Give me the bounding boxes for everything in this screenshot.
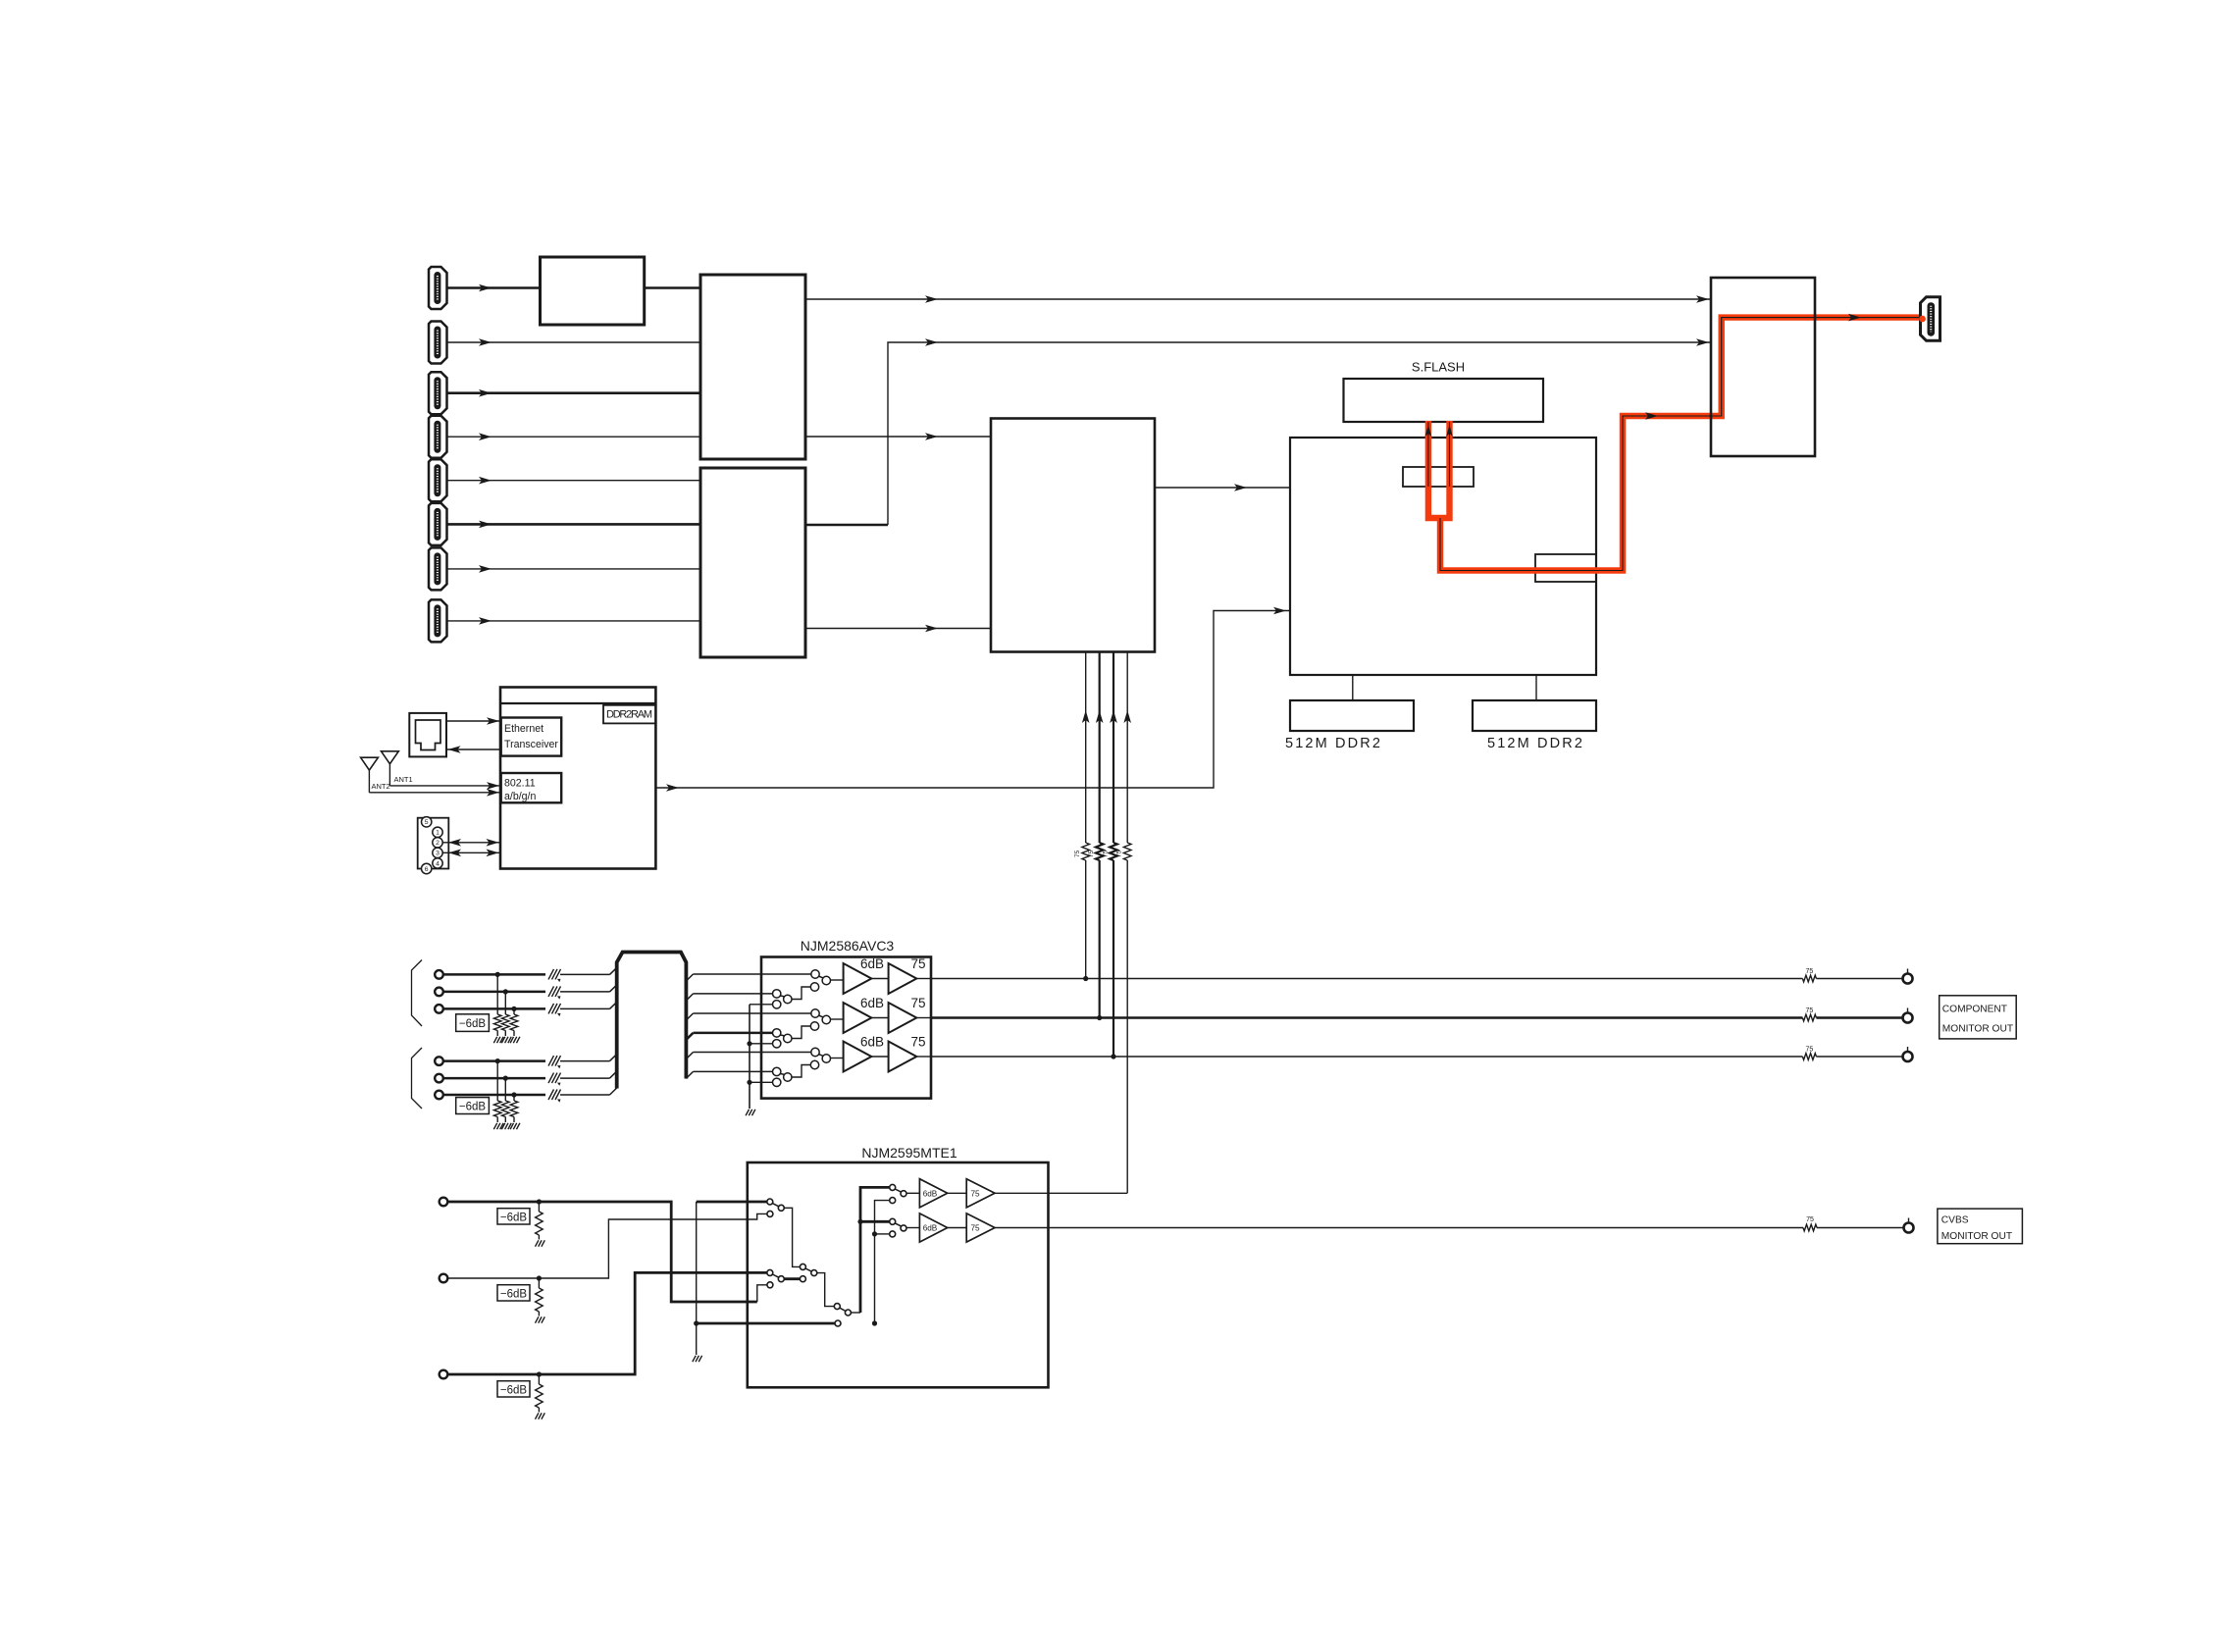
label -6dB cvbs 1	[497, 1209, 530, 1224]
wire video v2 with resistor 75	[1088, 652, 1103, 1018]
wire cvbs1 link	[948, 1192, 967, 1194]
switch row2 A	[810, 1009, 830, 1030]
wire video v3 with resistor 75	[1103, 652, 1117, 1058]
svg-text:5: 5	[425, 819, 429, 826]
wire row2 swB to swA	[792, 1026, 810, 1039]
switch S1	[767, 1199, 785, 1216]
wire RJ45 to ethernet	[446, 717, 501, 725]
wire riser to U-R	[888, 338, 1711, 525]
block DDR2 right	[1473, 700, 1596, 731]
connector J6 (HDMI input 6)	[429, 503, 447, 545]
block U-A (HDMI receiver A)	[700, 275, 805, 459]
wire TB to U-A	[645, 286, 700, 289]
ground group2 2	[501, 1123, 511, 1129]
svg-text:CVBS: CVBS	[1941, 1215, 1969, 1226]
connector J7 (HDMI input 7)	[429, 547, 447, 590]
op-amp row3 75	[889, 1042, 917, 1072]
wire ground bus E1	[747, 1005, 751, 1109]
ground group1 1	[493, 1037, 503, 1043]
switch row3 B	[773, 1067, 793, 1086]
terminal group2 Pr	[435, 1091, 443, 1100]
ground group2 1	[493, 1123, 503, 1129]
connector J8 (HDMI input 8)	[429, 599, 447, 642]
pin 6	[422, 863, 432, 873]
svg-text:75: 75	[1806, 968, 1814, 975]
svg-text:6dB: 6dB	[923, 1224, 938, 1233]
svg-text:NJM2595MTE1: NJM2595MTE1	[861, 1145, 957, 1161]
wire cvbs amp2 out	[995, 1227, 1049, 1229]
pin 2	[433, 838, 442, 848]
label cvbs1 75	[970, 1189, 980, 1198]
wire row1 amp to amp	[871, 978, 888, 980]
svg-text:75: 75	[910, 956, 925, 971]
svg-text:512M DDR2: 512M DDR2	[1285, 736, 1380, 751]
wire cvbs2 link	[948, 1227, 967, 1229]
wire cvbs in1 elbow to S2 lower	[757, 1285, 767, 1302]
block U-S (main SoC)	[1290, 438, 1596, 675]
ferrite bead group2 Y	[548, 1056, 561, 1068]
label ANT1	[394, 775, 413, 784]
terminal group2 Y	[435, 1057, 443, 1065]
label NJM2586AVC3	[801, 938, 895, 954]
ground group1 3	[510, 1037, 520, 1043]
wire row2 amp out	[916, 1017, 931, 1019]
terminal group2 Pb	[435, 1074, 443, 1083]
resistor -6dB cvbs 3	[536, 1374, 543, 1413]
node v3-Pr junction	[1111, 1054, 1115, 1058]
node cvbs in2 junction	[537, 1275, 542, 1280]
block P2 (output port)	[1535, 554, 1596, 582]
svg-text:4: 4	[436, 860, 440, 867]
svg-text:−6dB: −6dB	[459, 1102, 487, 1113]
wire cvbs in2	[447, 1213, 767, 1278]
label S.FLASH	[1412, 360, 1465, 375]
svg-text:COMPONENT: COMPONENT	[1942, 1005, 2007, 1015]
wire group2 Pr input	[443, 1088, 617, 1095]
svg-text:−6dB: −6dB	[459, 1018, 487, 1030]
svg-text:75: 75	[1103, 850, 1110, 857]
node v1-Y junction	[1083, 976, 1088, 981]
switch S3	[800, 1264, 816, 1281]
svg-text:75: 75	[1088, 850, 1095, 857]
connector J1 (HDMI input 1)	[429, 267, 447, 309]
label DDR2RAM box	[603, 705, 655, 724]
label cvbs2 75	[970, 1224, 980, 1233]
wire U-S to DDR2 right	[1535, 675, 1537, 700]
svg-text:6dB: 6dB	[860, 996, 884, 1010]
wire mute feed vertical	[697, 1202, 767, 1323]
label -6dB group1	[456, 1014, 490, 1032]
connector RJ45	[409, 713, 446, 757]
wire row1 swB to swA	[792, 987, 810, 1000]
connector phone jack	[418, 818, 449, 869]
wire black overlay route	[1440, 314, 1922, 571]
node cvbs in3 junction	[537, 1371, 542, 1376]
wire group1 Pr input	[443, 1002, 617, 1008]
block U-R (HDMI transmitter)	[1711, 278, 1815, 456]
svg-text:75: 75	[1806, 1007, 1814, 1014]
wire group1 Pb input	[443, 985, 617, 992]
connector HDMI OUT	[1919, 297, 1940, 341]
node v2-Pb junction	[1097, 1015, 1102, 1020]
wire row3 swB to swA	[792, 1065, 810, 1078]
wire cable to row1 A	[686, 974, 810, 981]
resistor -6dB group1 1	[493, 974, 501, 1036]
wire J5 to block	[447, 477, 700, 485]
wire U-A out2 to U-C	[805, 433, 991, 440]
svg-text:75: 75	[970, 1224, 980, 1233]
label cvbs1 6dB	[923, 1189, 938, 1198]
svg-text:75: 75	[1116, 850, 1123, 857]
wire component out Pb	[931, 1016, 1903, 1019]
connector J4 (HDMI input 4)	[429, 416, 447, 458]
wire red route to HDMI out (highlight)	[1440, 318, 1922, 571]
svg-text:75: 75	[1074, 850, 1081, 857]
wire cvbs amp1 out	[995, 1192, 1049, 1194]
wire pin2 to module	[443, 839, 501, 847]
wire S2 common to S3 lower (thick)	[784, 1277, 800, 1280]
terminal cvbs in1	[440, 1198, 448, 1207]
wire ANT1 to 802.11	[389, 782, 500, 790]
op-amp U2 NJM2586AVC3 block	[761, 957, 931, 1099]
block DDR2 left	[1290, 700, 1414, 731]
resistor -6dB cvbs 1	[536, 1202, 543, 1240]
svg-text:ANT1: ANT1	[394, 775, 413, 784]
svg-text:75: 75	[1806, 1047, 1814, 1054]
svg-text:−6dB: −6dB	[500, 1213, 528, 1224]
label row1 75	[910, 956, 925, 971]
pin 4	[433, 858, 442, 868]
ferrite bead group1 Y	[548, 969, 561, 982]
op-amp row2 75	[889, 1003, 917, 1033]
resistor -6dB group2 3	[510, 1095, 518, 1122]
label -6dB cvbs 2	[497, 1285, 530, 1301]
block Ethernet Transceiver	[501, 718, 562, 756]
terminal component out Y	[1903, 969, 1913, 984]
svg-text:a/b/g/n: a/b/g/n	[504, 791, 537, 802]
wire row2 swA to amp	[831, 1018, 844, 1020]
wire S3 common to S4 upper	[817, 1273, 834, 1307]
switch S2	[767, 1269, 785, 1287]
wire v4 to NJM2595	[1049, 1192, 1128, 1194]
switch row3 A	[810, 1048, 830, 1068]
label Ethernet Transceiver	[504, 723, 558, 750]
label NJM2595MTE1	[861, 1145, 957, 1161]
switch row1 B	[773, 990, 793, 1008]
label row2 6dB	[860, 996, 884, 1010]
wire module to U-S	[655, 607, 1290, 792]
ground cvbs 2	[536, 1316, 545, 1322]
wire row3 swA to amp	[831, 1058, 844, 1059]
node group2 Y junction	[495, 1058, 500, 1063]
wire row3 amp to amp	[871, 1056, 888, 1058]
ground group1 2	[501, 1037, 511, 1043]
bracket group1	[412, 960, 423, 1027]
op-amp cvbs1 6dB	[919, 1179, 947, 1208]
wire J8 to block	[447, 617, 700, 625]
terminal cvbs in3	[440, 1370, 448, 1379]
label 512M DDR2 left	[1285, 736, 1380, 751]
wire J2 to block	[447, 338, 700, 346]
svg-text:75: 75	[1806, 1216, 1814, 1223]
wire CVBS out	[1049, 1227, 1904, 1229]
wire thick riser to S5 S6	[857, 1187, 889, 1313]
wire group2 Pb input	[443, 1071, 617, 1078]
op-amp row2 6dB	[844, 1003, 872, 1033]
block TB (input buffer)	[541, 257, 645, 325]
terminal group1 Y	[435, 970, 443, 979]
block U-M (network module)	[500, 688, 655, 869]
svg-text:6dB: 6dB	[860, 956, 884, 971]
svg-text:6: 6	[425, 866, 429, 873]
label row2 75	[910, 996, 925, 1010]
wire U-A out1 to U-R	[805, 295, 1711, 303]
svg-text:Ethernet: Ethernet	[504, 723, 543, 735]
pin 3	[433, 848, 442, 857]
ferrite bead group1 Pb	[548, 986, 561, 999]
node group1 Pb junction	[503, 989, 508, 994]
svg-text:NJM2586AVC3: NJM2586AVC3	[801, 938, 895, 954]
wire S6 to amp	[906, 1227, 919, 1229]
block P1 (flash interface port)	[1403, 467, 1474, 487]
op-amp cvbs2 6dB	[919, 1213, 947, 1242]
svg-text:75: 75	[910, 996, 925, 1010]
label 512M DDR2 right	[1487, 736, 1582, 751]
label row3 75	[910, 1035, 925, 1050]
block U-B (HDMI receiver B)	[700, 468, 805, 657]
wire U-B out2 to U-C	[805, 625, 991, 633]
connector J3 (HDMI input 3)	[429, 372, 447, 414]
ground E1 bus	[746, 1110, 755, 1115]
node group1 Pr junction	[511, 1007, 516, 1011]
wire component out Pr	[931, 1056, 1903, 1058]
wire cable to row2 A	[686, 1013, 810, 1020]
terminal component out Pr	[1903, 1047, 1913, 1061]
svg-text:MONITOR OUT: MONITOR OUT	[1941, 1231, 2012, 1242]
wire S1 common to S3 upper	[784, 1208, 800, 1266]
label COMPONENT MONITOR OUT	[1940, 996, 2017, 1039]
wire J4 to block	[447, 433, 700, 440]
label 802.11 abgn	[504, 778, 537, 803]
wire ethernet to RJ45	[446, 746, 501, 753]
svg-text:6dB: 6dB	[860, 1035, 884, 1050]
wire cable to row2 B	[686, 1033, 772, 1040]
wire black overlay flash stub 2	[1446, 422, 1453, 487]
wire video v4 with resistor 75	[1116, 652, 1131, 1194]
wire black overlay flash stub 1	[1425, 422, 1432, 487]
terminal component out Pb	[1903, 1008, 1913, 1023]
ground group2 3	[510, 1123, 520, 1129]
svg-text:3: 3	[436, 851, 440, 857]
resistor -6dB group2 2	[502, 1078, 510, 1122]
wire row1 amp out	[916, 978, 931, 980]
wire row2 swB lower to bus	[750, 1043, 773, 1045]
pin 5	[422, 817, 432, 827]
svg-text:−6dB: −6dB	[500, 1385, 528, 1397]
svg-text:DDR2RAM: DDR2RAM	[606, 709, 652, 721]
block S.FLASH	[1344, 379, 1544, 422]
wire pin3 to module	[443, 850, 501, 857]
wire ground bus cvbs (thick)	[697, 1322, 835, 1325]
wire J6 to block	[447, 521, 700, 529]
wire row1 swB lower to bus	[750, 1004, 773, 1006]
switch S6	[890, 1218, 906, 1237]
connector J5 (HDMI input 5)	[429, 459, 447, 501]
svg-text:MONITOR OUT: MONITOR OUT	[1942, 1024, 2013, 1035]
wire cvbs in1 (thick)	[447, 1202, 757, 1302]
switch S4	[834, 1304, 851, 1326]
wire cvbs in3 (thick)	[447, 1272, 766, 1374]
node group2 Pr junction	[511, 1092, 516, 1097]
svg-text:2: 2	[436, 840, 440, 847]
bracket group2	[412, 1048, 423, 1109]
wire J7 to block	[447, 565, 700, 573]
svg-text:512M DDR2: 512M DDR2	[1487, 736, 1582, 751]
op-amp cvbs2 75	[966, 1213, 995, 1242]
op-amp cvbs1 75	[966, 1179, 995, 1208]
op-amp U3 NJM2595MTE1 block	[748, 1162, 1049, 1387]
resistor 75 out Y	[1802, 968, 1816, 982]
switch row1 A	[810, 970, 830, 991]
op-amp row1 75	[889, 963, 917, 994]
wire J1 to block	[447, 284, 541, 292]
svg-text:1: 1	[436, 830, 440, 837]
wire ground stub cvbs	[696, 1323, 698, 1355]
svg-text:802.11: 802.11	[504, 778, 536, 790]
node cvbs in1 junction	[537, 1199, 542, 1204]
resistor -6dB group1 3	[510, 1008, 518, 1036]
resistor 75 out Pr	[1802, 1047, 1816, 1060]
block U-C (video processor)	[991, 419, 1155, 652]
ground cvbs bus	[693, 1356, 702, 1362]
wire U-B out1 (thick) to riser	[805, 524, 888, 527]
label -6dB group2	[456, 1098, 490, 1114]
svg-text:−6dB: −6dB	[500, 1289, 528, 1301]
label ANT2	[372, 782, 390, 791]
resistor -6dB cvbs 2	[536, 1278, 543, 1316]
wire component out Y	[931, 978, 1903, 980]
switch row2 B	[773, 1029, 793, 1048]
ferrite bead group1 Pr	[548, 1004, 561, 1016]
pin 1	[433, 827, 442, 837]
wire row3 amp out	[916, 1056, 931, 1058]
ground cvbs 3	[536, 1413, 545, 1419]
ferrite bead group2 Pb	[548, 1073, 561, 1086]
wire U-C to U-S	[1155, 484, 1290, 491]
wire U-S to DDR2 left	[1352, 675, 1354, 700]
wire S5 to amp	[906, 1192, 919, 1194]
svg-text:6dB: 6dB	[923, 1189, 938, 1198]
wire red flash stubs (highlight)	[1428, 421, 1450, 518]
antenna ANT2	[361, 757, 379, 793]
op-amp row1 6dB	[844, 963, 872, 994]
svg-text:ANT2: ANT2	[372, 782, 390, 791]
label cvbs2 6dB	[923, 1224, 938, 1233]
ferrite bead group2 Pr	[548, 1090, 561, 1103]
terminal CVBS out	[1904, 1218, 1914, 1233]
svg-text:S.FLASH: S.FLASH	[1412, 360, 1465, 375]
label DDR2RAM	[606, 709, 652, 721]
resistor -6dB group1 2	[502, 992, 510, 1036]
node group2 Pb junction	[503, 1076, 508, 1081]
wire ANT2 to 802.11	[369, 789, 500, 797]
resistor -6dB group2 1	[493, 1061, 501, 1122]
antenna ANT1	[382, 751, 399, 786]
wire S5 S6 lower tie	[872, 1201, 890, 1326]
wire J3 to block	[447, 389, 700, 397]
block 802.11 abgn	[501, 773, 562, 802]
resistor 75 out Pb	[1802, 1007, 1816, 1021]
terminal cvbs in2	[440, 1274, 448, 1283]
label -6dB cvbs 3	[497, 1381, 530, 1397]
wire group1 Y input	[443, 967, 617, 974]
label row3 6dB	[860, 1035, 884, 1050]
wire row1 swA to amp	[831, 979, 844, 981]
wire cable to row3 B	[686, 1071, 772, 1078]
wire row3 swB lower to bus	[750, 1081, 773, 1083]
svg-text:Transceiver: Transceiver	[504, 739, 558, 750]
wire cable to row1 B	[686, 994, 772, 1001]
label CVBS MONITOR OUT	[1938, 1209, 2022, 1244]
node group1 Y junction	[495, 972, 500, 977]
svg-text:75: 75	[970, 1189, 980, 1198]
wire video v1 with resistor 75	[1074, 652, 1089, 979]
wire S4 common to riser	[852, 1312, 861, 1314]
wire group2 Y input	[443, 1055, 617, 1061]
switch S5	[890, 1184, 906, 1203]
terminal group1 Pr	[435, 1005, 443, 1013]
ground cvbs 1	[536, 1240, 545, 1246]
terminal group1 Pb	[435, 988, 443, 997]
resistor 75 CVBS	[1803, 1216, 1817, 1231]
wire cable to row3 A	[686, 1053, 810, 1059]
label row1 6dB	[860, 956, 884, 971]
wire row2 amp to amp	[871, 1017, 888, 1019]
op-amp row3 6dB	[844, 1042, 872, 1072]
cable trunk	[617, 953, 687, 1089]
node mute bus junction	[694, 1320, 699, 1325]
connector J2 (HDMI input 2)	[429, 322, 447, 364]
svg-text:75: 75	[910, 1035, 925, 1050]
